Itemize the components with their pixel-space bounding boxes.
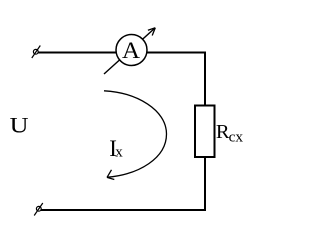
svg-text:cx: cx	[229, 129, 244, 145]
svg-text:A: A	[122, 38, 140, 64]
svg-text:x: x	[115, 144, 123, 160]
svg-text:U: U	[10, 113, 29, 138]
